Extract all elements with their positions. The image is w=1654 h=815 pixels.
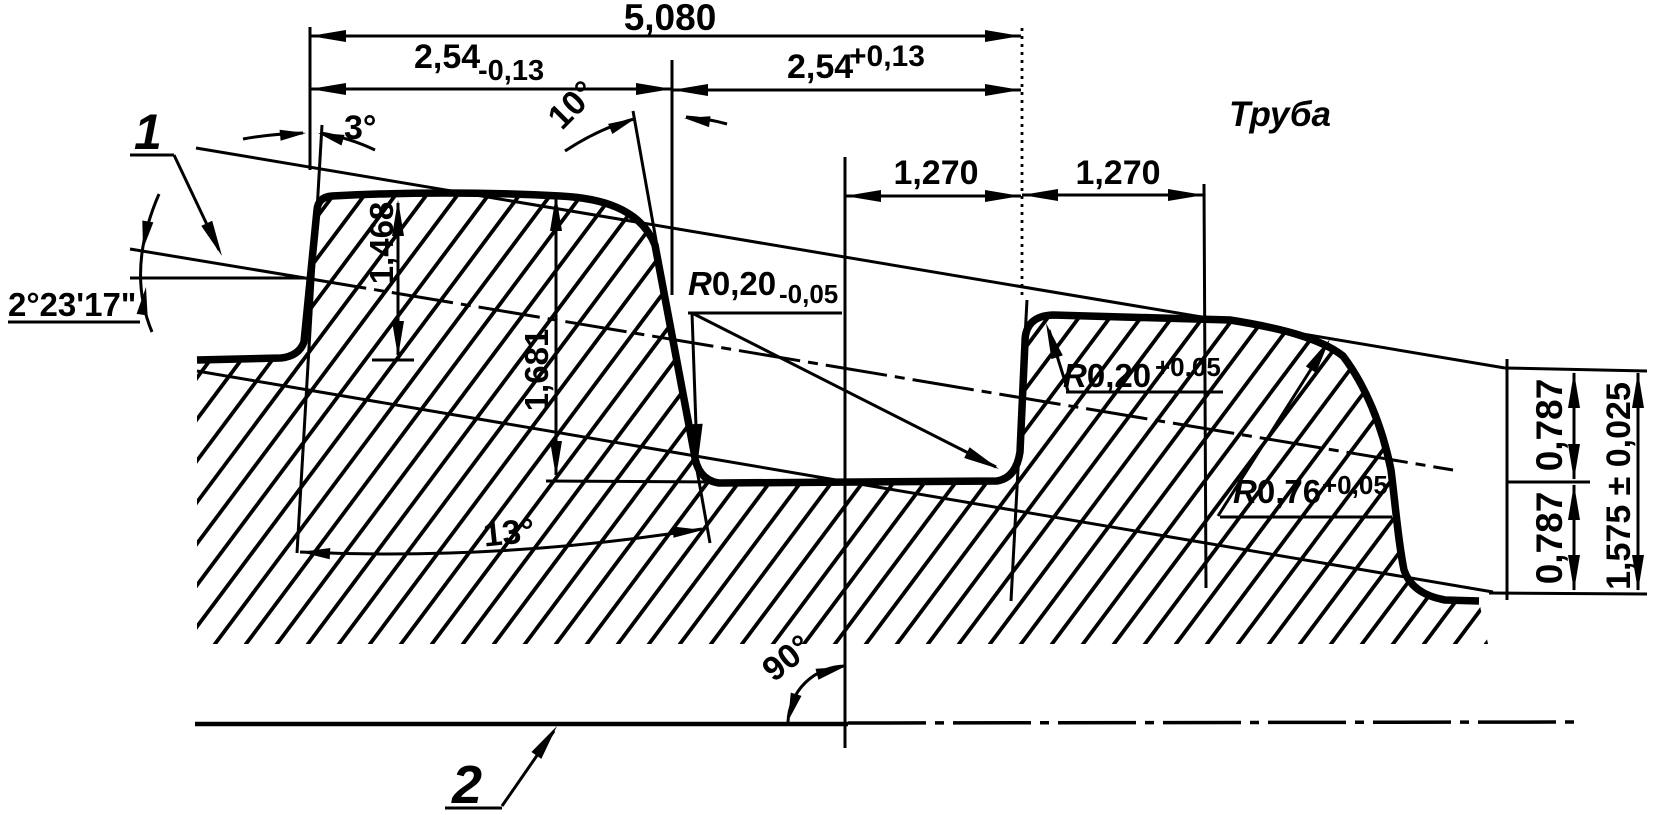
svg-text:2,54: 2,54	[787, 48, 853, 86]
svg-text:1,468: 1,468	[363, 202, 400, 285]
svg-text:-0,13: -0,13	[478, 55, 544, 87]
svg-text:13°: 13°	[481, 511, 536, 554]
svg-text:1,270: 1,270	[893, 154, 978, 192]
svg-text:1: 1	[134, 104, 162, 160]
svg-text:2°23'17": 2°23'17"	[8, 286, 136, 323]
svg-text:2: 2	[451, 755, 482, 815]
svg-text:R0,20: R0,20	[688, 265, 776, 302]
svg-text:0,787: 0,787	[1529, 492, 1570, 585]
svg-text:2,54: 2,54	[414, 38, 480, 76]
svg-text:+0,05: +0,05	[1155, 352, 1221, 382]
svg-text:Труба: Труба	[1229, 95, 1331, 134]
svg-text:+0,05: +0,05	[1322, 470, 1388, 500]
svg-text:+0,13: +0,13	[849, 40, 925, 73]
svg-text:-0,05: -0,05	[779, 279, 838, 309]
svg-text:0,787: 0,787	[1529, 379, 1570, 472]
svg-text:5,080: 5,080	[624, 0, 717, 38]
svg-text:R0,76: R0,76	[1233, 473, 1321, 510]
svg-text:1,270: 1,270	[1075, 154, 1160, 192]
svg-text:1,681: 1,681	[518, 329, 555, 412]
svg-text:3°: 3°	[344, 109, 377, 147]
svg-text:R0,20: R0,20	[1063, 357, 1151, 394]
svg-text:1,575 ± 0,025: 1,575 ± 0,025	[1600, 382, 1638, 590]
